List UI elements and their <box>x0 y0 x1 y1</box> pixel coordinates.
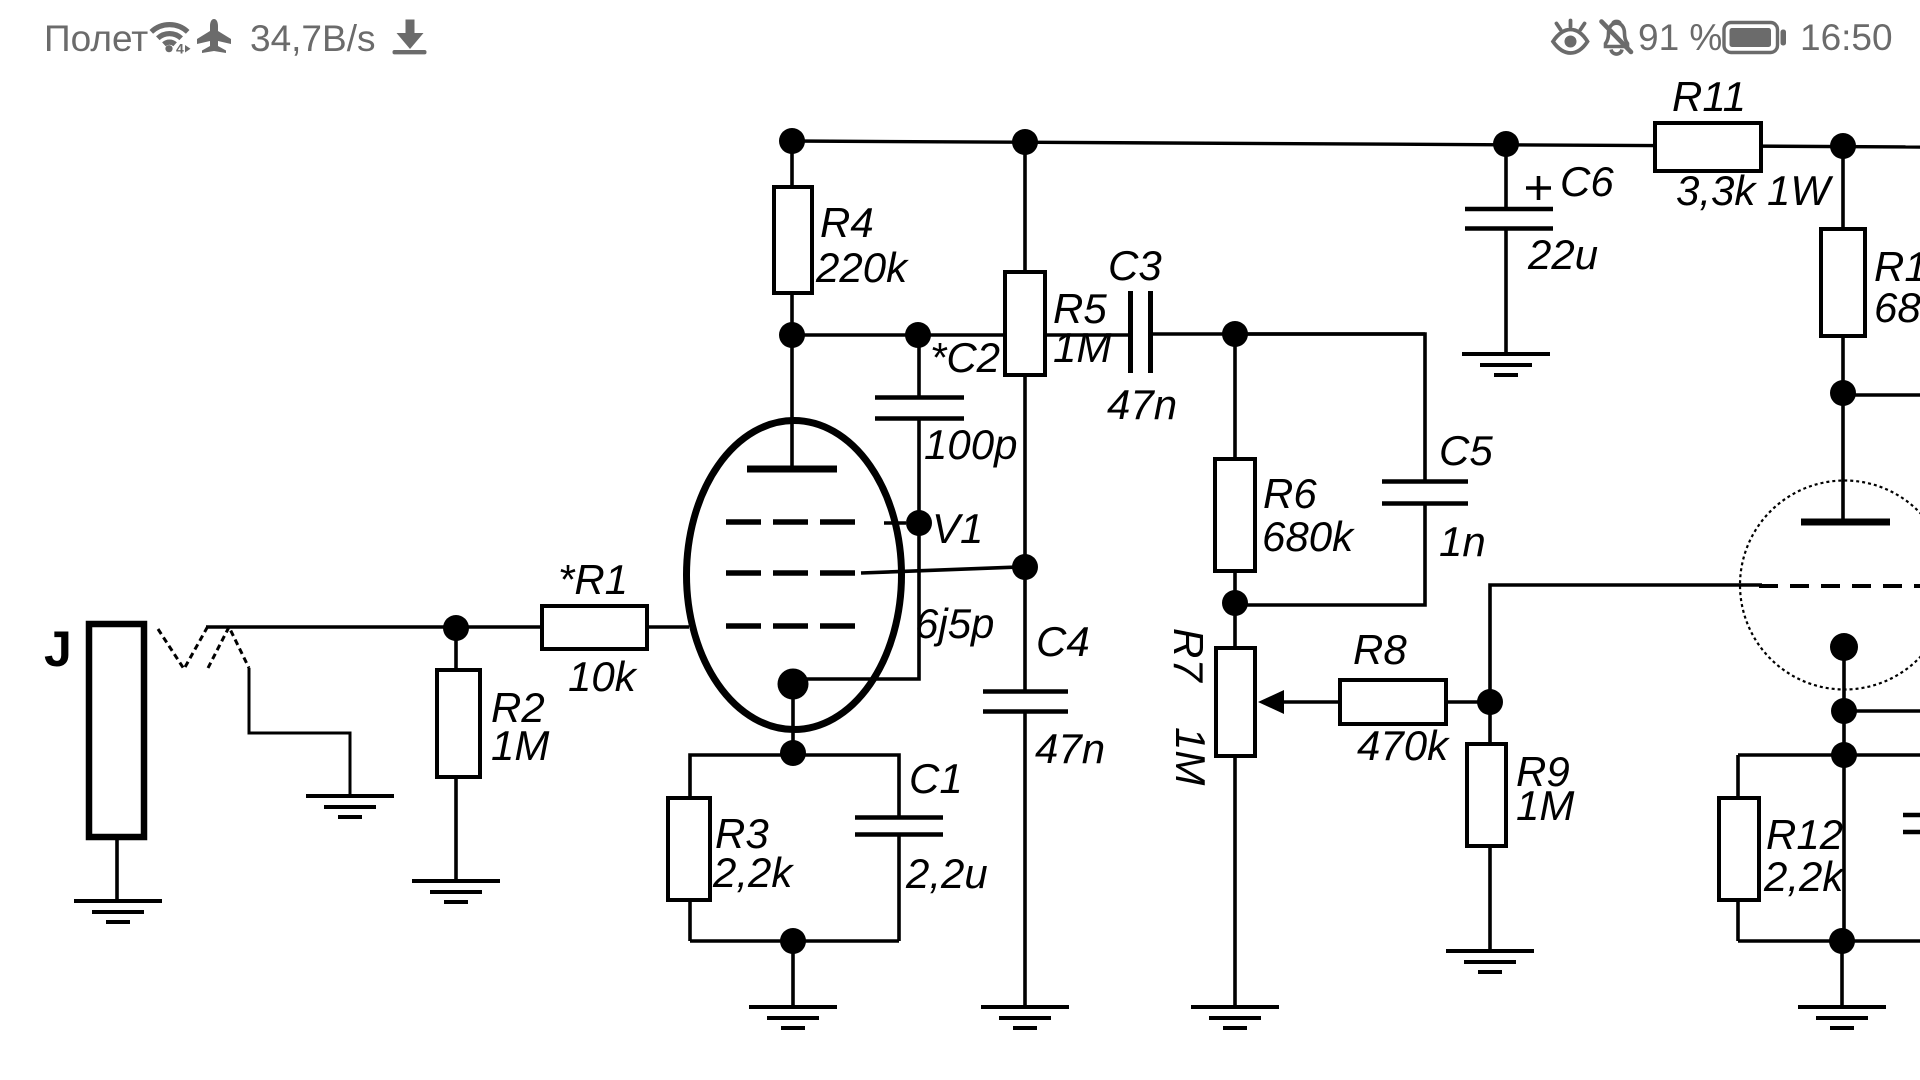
resistor R9 <box>1467 702 1574 950</box>
wire: to V2 grid <box>1490 585 1762 702</box>
status bar notifications-off bell icon <box>1602 21 1632 54</box>
svg-text:C3: C3 <box>1108 242 1162 289</box>
ground under R2 <box>412 881 500 902</box>
svg-text:R11: R11 <box>1672 73 1746 120</box>
junction cathode network bottom <box>780 928 806 954</box>
svg-text:220k: 220k <box>815 244 909 291</box>
wire: B+ supply rail <box>792 141 1920 147</box>
resistor R10 (clipped at edge) <box>1821 146 1920 393</box>
svg-text:J: J <box>44 621 72 677</box>
resistor R5 <box>1005 142 1111 567</box>
svg-text:*R1: *R1 <box>558 556 628 603</box>
svg-text:2,2u: 2,2u <box>905 850 988 897</box>
node V1 grid3 junction <box>906 510 932 536</box>
svg-text:68: 68 <box>1874 284 1920 331</box>
resistor R11 <box>1655 73 1833 214</box>
junction rail/R10 <box>1830 133 1856 159</box>
wire: to ground stem <box>791 941 795 1006</box>
capacitor C7 bypass (clipped at edge) <box>1903 815 1920 832</box>
status bar wifi icon <box>151 25 187 45</box>
wire: V2 anode lead <box>1841 393 1845 519</box>
capacitor C1 <box>793 755 988 941</box>
jack switch contact <box>158 626 350 794</box>
junction C3 output node <box>1222 321 1248 347</box>
ground under jack <box>74 901 162 922</box>
wire: R12 top rail to edge <box>1738 753 1920 757</box>
svg-text:91 %: 91 % <box>1638 17 1722 58</box>
svg-text:1M: 1M <box>1167 727 1214 785</box>
ground under R12 <box>1798 1007 1886 1028</box>
svg-text:C6: C6 <box>1560 158 1614 205</box>
capacitor C6 <box>1465 144 1614 353</box>
resistor R12 <box>1719 755 1845 941</box>
junction rail/R4 <box>779 128 805 154</box>
svg-text:R6: R6 <box>1263 470 1317 517</box>
tube V2 (clipped at edge) <box>1740 481 1920 942</box>
svg-text:470k: 470k <box>1357 722 1450 769</box>
wire: input signal <box>206 625 542 629</box>
wire: bottom ground stem <box>1840 941 1844 1006</box>
svg-text:10k: 10k <box>568 653 638 700</box>
ground under R7 <box>1191 1007 1279 1028</box>
svg-text:V1: V1 <box>932 505 983 552</box>
svg-text:4: 4 <box>176 41 184 57</box>
junction R8/R9 node <box>1477 689 1503 715</box>
junction R6/R7/C5 node <box>1222 590 1248 616</box>
junction V2 cathode tap <box>1831 698 1857 724</box>
status bar eye-comfort icon <box>1553 21 1588 54</box>
resistor R8 <box>1340 626 1490 769</box>
svg-text:100p: 100p <box>924 421 1017 468</box>
svg-text:47n: 47n <box>1107 381 1177 428</box>
svg-text:Полет: Полет <box>44 18 148 59</box>
status bar download icon <box>393 20 427 55</box>
wire: V2 cathode network bottom <box>1738 939 1920 943</box>
capacitor C4 <box>983 567 1105 1006</box>
resistor R1 <box>542 556 689 700</box>
capacitor C3 <box>1107 242 1177 428</box>
capacitor C2 <box>875 334 1017 523</box>
ground under R3/C1 <box>749 1007 837 1028</box>
svg-text:2,2k: 2,2k <box>712 849 794 896</box>
junction V2 cathode bottom <box>1829 928 1855 954</box>
wire: cathode network bottom <box>690 939 899 943</box>
capacitor C5 <box>1235 334 1493 605</box>
resistor R4 <box>774 141 909 335</box>
svg-text:16:50: 16:50 <box>1800 17 1893 58</box>
junction anode node / C2 <box>905 322 931 348</box>
wire: cathode tap to edge <box>1844 709 1920 713</box>
status bar airplane-mode icon <box>197 19 231 53</box>
junction screen node <box>1012 554 1038 580</box>
junction rail/R5 <box>1012 129 1038 155</box>
svg-text:R7: R7 <box>1165 628 1212 683</box>
wire: node to screen edge <box>1843 393 1920 397</box>
ground under R9 <box>1446 951 1534 972</box>
tube V1 <box>687 335 995 753</box>
svg-text:680k: 680k <box>1262 513 1355 560</box>
svg-text:C1: C1 <box>909 755 963 802</box>
junction R10 output node <box>1830 380 1856 406</box>
svg-text:R1: R1 <box>1874 243 1920 290</box>
svg-text:1n: 1n <box>1439 518 1486 565</box>
junction input node <box>443 615 469 641</box>
svg-text:22u: 22u <box>1527 231 1598 278</box>
junction R12 top node <box>1831 742 1857 768</box>
potentiometer R7 <box>1165 603 1340 1006</box>
junction rail/C6 <box>1493 131 1519 157</box>
svg-text:1M: 1M <box>1053 324 1111 371</box>
svg-text:C5: C5 <box>1439 427 1493 474</box>
ground under C6 <box>1462 354 1550 375</box>
svg-text:6j5p: 6j5p <box>915 600 994 647</box>
wire: screen grid to node <box>861 567 1020 573</box>
ground under C4 <box>981 1007 1069 1028</box>
svg-text:*C2: *C2 <box>930 334 1000 381</box>
junction cathode / R3C1 top <box>780 740 806 766</box>
svg-text:2,2k: 2,2k <box>1763 853 1845 900</box>
wire: anode node horizontal run <box>792 334 1425 335</box>
input jack J <box>44 621 144 900</box>
svg-text:R4: R4 <box>820 199 874 246</box>
svg-text:1M: 1M <box>491 722 549 769</box>
svg-text:47n: 47n <box>1035 725 1105 772</box>
svg-text:C4: C4 <box>1036 618 1090 665</box>
wire: suppressor grid / cathode tie <box>806 523 919 679</box>
svg-text:34,7B/s: 34,7B/s <box>250 18 375 59</box>
svg-text:3,3k 1W: 3,3k 1W <box>1676 167 1833 214</box>
svg-text:R8: R8 <box>1353 626 1407 673</box>
status bar battery icon <box>1724 23 1786 53</box>
svg-text:R12: R12 <box>1766 811 1843 858</box>
resistor R6 <box>1215 334 1355 603</box>
ground under switch <box>306 796 394 817</box>
junction anode node <box>779 322 805 348</box>
resistor R3 <box>668 755 794 941</box>
resistor R2 <box>437 628 549 880</box>
svg-text:1M: 1M <box>1516 782 1574 829</box>
